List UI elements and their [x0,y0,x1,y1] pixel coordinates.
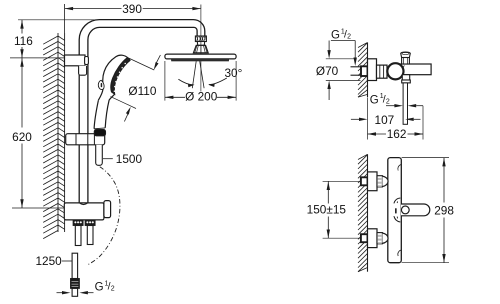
svg-text:2: 2 [111,286,115,293]
svg-text:1250: 1250 [36,254,63,268]
label G 1/2 upper (top right) with pointers [327,28,357,66]
hose end connector below holder [96,145,103,166]
dimension 107 (wall to outlet) [351,113,421,127]
dimension Ø110 (hand shower diameter, diagonal) [111,55,161,122]
hex S-union connector [377,65,388,78]
knurled connector nut above head shower [195,36,206,45]
escutcheon Ø70 (side view) [368,59,377,81]
svg-text:2: 2 [386,98,390,105]
shower outlet below body with flange and pipe [402,75,411,125]
spray mode button on hand shower [98,80,104,89]
wall section (top right drawing) [358,43,368,98]
svg-text:162: 162 [387,127,407,141]
dimension 116 (left, arm to bracket) [14,20,97,58]
svg-text:30°: 30° [225,66,243,80]
svg-text:Ø 200: Ø 200 [185,89,218,103]
svg-text:107: 107 [375,113,395,127]
shower riser pipe and arm (chrome tube with two elbows) [79,20,205,203]
dimension Ø200 under head shower [165,61,236,103]
svg-text:G: G [95,282,104,294]
wall bracket for riser [65,55,89,75]
temperature scale marks on body [394,198,400,213]
wall section (left drawing) with herringbone hatch [43,33,64,239]
top union: square nut, escutcheon, knurl, dome [361,172,388,191]
hand shower head (tilted): back shell outline [98,55,129,100]
thermostat body (front view, vertical) [388,158,402,263]
bottom supply fitting [64,201,110,220]
svg-text:G: G [331,30,340,42]
extension line at bottom fitting [12,207,64,209]
hand shower spray face band (dark, dotted) [111,58,130,94]
svg-text:2: 2 [347,34,351,41]
label G 1/2 middle with arrows at outlet pipe [370,93,423,107]
svg-text:G: G [370,94,379,106]
shower hose (dash-dot curve) [87,167,120,265]
bottom hose connection pipe with knurled nut G 1/2 [71,253,80,296]
extension line at wall bracket [10,57,64,59]
dimension 162 (wall to body end) [368,98,424,142]
hand shower handle with dark end [94,94,115,136]
svg-text:1500: 1500 [116,152,143,166]
label G 1/2 (bottom left) [95,280,115,293]
square union nut on wall (top right, bold) [361,66,368,76]
lever handle capsule (front view) [394,204,430,222]
dimension 620 (left, bracket to bottom fitting) [12,58,32,208]
wall section (bottom right drawing) [358,154,368,271]
head shower ball joint cone [193,45,208,53]
rail tube end cap inside fitting [79,203,88,205]
dimension arrows for G 1/2 nut (bottom left) [57,291,94,294]
center extension line through head shower [200,9,202,92]
bottom union: square nut, escutcheon, knurl, dome [361,229,388,248]
svg-text:150±15: 150±15 [307,203,347,217]
svg-text:390: 390 [122,2,142,16]
spray cone lines 30deg [192,61,204,88]
head shower plate Ø200 (side view) [165,54,236,61]
svg-text:Ø110: Ø110 [128,84,156,98]
thermostat body (top right) [399,64,431,75]
dimension 298 (body height) [402,158,455,263]
rail holder (slider) on riser [66,134,105,145]
svg-text:Ø70: Ø70 [316,64,339,78]
diverter knob on top of body [401,52,411,64]
svg-text:298: 298 [434,204,454,218]
svg-text:620: 620 [12,130,32,144]
dimension 150 +-15 (union spacing) [307,181,361,238]
inlet tube through wall (top right) [351,67,362,75]
dimension Ø70 (escutcheon) [316,59,361,100]
angle dimension arcs with arrows (30deg) [178,66,242,87]
thermostat handle knob (bold circle) [387,63,403,79]
label 1250 with leader [36,254,73,268]
label 1500 (hose length) with leader [103,152,142,166]
dimension 390 (top width) [65,2,201,33]
left supply nut (knurled) and pipe [73,220,83,245]
right supply nut (knurled) and pipe [85,220,95,244]
svg-text:116: 116 [14,34,33,48]
